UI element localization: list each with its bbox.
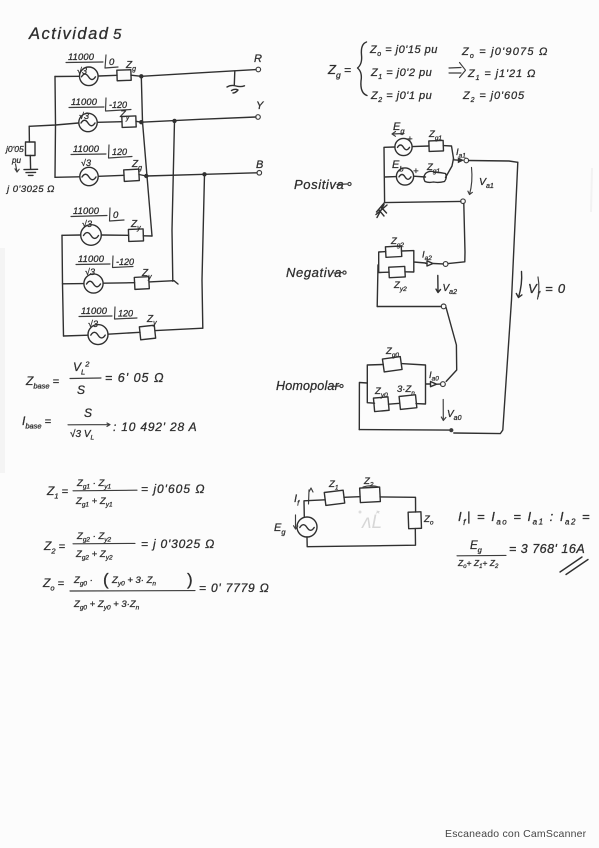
svg-text:120: 120 bbox=[118, 309, 133, 319]
node Y junction bbox=[139, 120, 143, 124]
source V4 bbox=[81, 225, 102, 246]
impedance Zy (phase R, bank2) bbox=[128, 219, 143, 241]
wire Zg1 to node R bbox=[131, 75, 141, 76]
formula Z0 bbox=[42, 570, 270, 612]
wire Z1f to Z2f bbox=[344, 496, 360, 499]
node homopolar bottom terminal bbox=[449, 428, 453, 432]
svg-text:11000: 11000 bbox=[71, 97, 98, 107]
svg-text:): ) bbox=[187, 570, 193, 589]
svg-text:pu: pu bbox=[11, 156, 21, 165]
svg-text:R: R bbox=[254, 53, 262, 65]
wire bus1 (left vertical) bbox=[54, 77, 57, 178]
arrow Va1 bbox=[468, 168, 494, 195]
wire V1 to Zg1 bbox=[99, 74, 117, 77]
impedance 3Zn bbox=[397, 384, 417, 409]
terminal Ia1 bbox=[464, 158, 469, 163]
wire Z0f to bottom bbox=[307, 529, 416, 547]
watermark faint pencil bbox=[359, 511, 383, 534]
terminal B bbox=[257, 171, 262, 176]
wire bus2 (left vertical) bbox=[62, 235, 64, 336]
wire bus2 to V6 bbox=[64, 334, 89, 337]
impedance Z1 (fault loop) bbox=[324, 479, 344, 505]
terminal Ia0 bbox=[441, 382, 446, 387]
wire Zy5 to bus Y bbox=[149, 281, 178, 284]
svg-text:= 6' 05 Ω: = 6' 05 Ω bbox=[105, 371, 164, 385]
wire Z2f to corner bbox=[380, 497, 416, 512]
terminal R bbox=[256, 67, 261, 72]
ground on line R bbox=[227, 71, 245, 93]
source Eg (fault loop) bbox=[297, 517, 317, 537]
source Eb1 (positive) bbox=[396, 168, 413, 185]
svg-text:11000: 11000 bbox=[73, 144, 100, 154]
label Eg (positive src A) bbox=[392, 121, 413, 145]
svg-text:= 3 768' 16A: = 3 768' 16A bbox=[509, 542, 585, 556]
formula Ibase bbox=[22, 406, 197, 442]
wire V6 to Zy6 bbox=[108, 332, 140, 334]
svg-text:= j 0'3025 Ω: = j 0'3025 Ω bbox=[141, 537, 215, 551]
node B junction bbox=[144, 174, 148, 178]
svg-text:Homopolar: Homopolar bbox=[276, 379, 340, 393]
formula If chain bbox=[458, 509, 591, 527]
wire Ea1 to Zg1 bbox=[412, 145, 429, 148]
wire bus1 to V3 bbox=[55, 176, 79, 179]
arrow Va0 bbox=[441, 400, 461, 423]
title Actividad 5 bbox=[28, 25, 122, 43]
wire link positive-bottom to negative-top bbox=[448, 204, 465, 264]
junction Y-bus tap bbox=[172, 119, 176, 123]
wire Zy to node Y bbox=[136, 120, 141, 123]
svg-text:0: 0 bbox=[113, 210, 119, 221]
terminal Y bbox=[256, 115, 261, 120]
wire bus B (vertical tie) bbox=[202, 174, 205, 328]
arrow Ia2 bbox=[422, 250, 433, 267]
arrow Ia1 bbox=[454, 147, 467, 163]
svg-text:ʌĹ̀: ʌĹ̀ bbox=[361, 511, 382, 533]
svg-text:√3: √3 bbox=[85, 267, 95, 277]
wire homopolar left outer bbox=[359, 383, 367, 430]
source V1 bbox=[80, 67, 99, 86]
wire Zn to ground bbox=[29, 156, 31, 170]
svg-text:5: 5 bbox=[113, 26, 122, 43]
wire homopolar parallel loop bbox=[367, 364, 430, 405]
arrow implies bbox=[449, 63, 466, 78]
source V2 bbox=[79, 113, 97, 131]
wire bus R (vertical tie) bbox=[141, 76, 152, 236]
impedance Zg1 (branch A) bbox=[428, 129, 443, 151]
label Positiva bbox=[294, 177, 351, 192]
node R junction bbox=[139, 74, 143, 78]
label j0'05 pu bbox=[5, 144, 24, 165]
ground neutral bbox=[24, 169, 38, 175]
svg-text:= 0' 7779 Ω: = 0' 7779 Ω bbox=[199, 581, 270, 595]
svg-text:j0'05: j0'05 bbox=[5, 144, 24, 154]
wire Zg1 to node Ia1 bbox=[443, 146, 453, 159]
svg-text:Actividad: Actividad bbox=[28, 25, 109, 43]
wire Zg3 to node B bbox=[139, 175, 146, 177]
impedance Zy0 bbox=[373, 386, 389, 412]
impedance Zy (phase Y, bank2) bbox=[134, 268, 152, 289]
wire Eb1 to Zg1B bbox=[414, 175, 426, 178]
source V3 label 11000/sqrt3 angle 120 bbox=[71, 144, 132, 168]
wire bus2 to V5 bbox=[63, 283, 84, 285]
wire Zg1B to node Ia1 bbox=[446, 159, 454, 178]
label Negativa bbox=[286, 265, 346, 280]
source V3 bbox=[80, 167, 98, 185]
svg-text:: 10 492' 28 A: : 10 492' 28 A bbox=[113, 420, 197, 434]
arrow Vf = 0 bbox=[516, 272, 566, 300]
impedance Zy2 bbox=[389, 266, 407, 293]
ground scribble positive bbox=[376, 203, 387, 218]
formula Z1 bbox=[46, 478, 205, 509]
wire source top to Z1f bbox=[304, 500, 325, 517]
wire positive left vertical bbox=[384, 147, 396, 203]
svg-text:Y: Y bbox=[256, 100, 264, 112]
wire bus2 to V4 bbox=[62, 234, 81, 236]
source V5 bbox=[84, 274, 103, 293]
scan artifacts bbox=[0, 168, 592, 473]
wire negative bottom bbox=[377, 306, 441, 308]
wire Ia0 arrow to terminal bbox=[437, 383, 441, 385]
source V1 label 11000/sqrt3 angle 0 bbox=[66, 52, 118, 76]
svg-text:0: 0 bbox=[109, 57, 115, 68]
terminal positive bottom bbox=[461, 199, 466, 204]
impedance Z0 (fault loop) bbox=[408, 512, 434, 529]
impedance Zg1 (branch B, scribbled) bbox=[424, 162, 446, 182]
arrow Va2 bbox=[436, 276, 457, 297]
label Eb (positive src B) bbox=[392, 159, 419, 177]
svg-text:11000: 11000 bbox=[81, 306, 108, 316]
wire line R bbox=[141, 70, 256, 77]
svg-text:B: B bbox=[256, 159, 263, 171]
impedance Zn (neutral grounding) bbox=[26, 142, 36, 156]
wire link negative-bottom to homopolar-top bbox=[446, 307, 457, 381]
impedance Z2 (fault loop) bbox=[360, 476, 381, 503]
formula Z2 bbox=[43, 531, 215, 562]
formula If value bbox=[457, 540, 588, 575]
wire right rail (tall) bbox=[454, 162, 518, 433]
wire Zy4 to bus R bbox=[143, 235, 152, 237]
svg-text:j 0'3025 Ω: j 0'3025 Ω bbox=[5, 184, 55, 195]
terminal negative bottom bbox=[441, 304, 446, 309]
svg-text:= j0'605 Ω: = j0'605 Ω bbox=[141, 482, 205, 496]
source V5 label 11000/sqrt3 angle -120 bbox=[76, 254, 134, 277]
wire neutral tap to V2 bbox=[29, 123, 78, 126]
label Eg fault bbox=[274, 515, 298, 537]
arrow neutral bbox=[15, 164, 19, 172]
svg-text:11000: 11000 bbox=[68, 52, 95, 62]
impedance Zg2 bbox=[385, 236, 404, 257]
source V2 label 11000/sqrt3 angle -120 bbox=[69, 97, 131, 121]
source Ea1 (positive) bbox=[395, 138, 412, 155]
wire V4 to Zy4 bbox=[101, 234, 128, 236]
wire bus Y (vertical tie) bbox=[172, 121, 175, 281]
source V4 label 11000/sqrt3 angle 0 bbox=[71, 206, 124, 229]
svg-text:√3: √3 bbox=[81, 158, 91, 168]
junction B-bus tap bbox=[202, 172, 206, 176]
svg-text:11000: 11000 bbox=[73, 206, 100, 216]
label If bbox=[294, 488, 313, 508]
formula Zbase bbox=[25, 360, 164, 398]
svg-text:S: S bbox=[84, 406, 92, 420]
svg-text:S: S bbox=[77, 383, 85, 397]
wire line B bbox=[146, 173, 257, 176]
wire V3 to Zg3 bbox=[99, 175, 124, 176]
source V6 label 11000/sqrt3 angle 120 bbox=[79, 306, 137, 329]
wire line Y bbox=[141, 117, 256, 122]
impedance Zg0 bbox=[382, 346, 402, 372]
wire negative parallel loop bbox=[379, 251, 426, 273]
svg-text:Zo = j0'9075 Ω: Zo = j0'9075 Ω bbox=[461, 46, 549, 60]
impedance Zg (phase R, bank1) bbox=[117, 60, 136, 81]
wire V5 to Zy5 bbox=[103, 282, 135, 285]
svg-text:11000: 11000 bbox=[78, 254, 105, 264]
svg-text:Negativa: Negativa bbox=[286, 265, 342, 280]
impedance Zg (phase B, bank1) bbox=[124, 159, 142, 181]
wire negative left down bbox=[376, 265, 379, 307]
wire homopolar bottom bbox=[359, 429, 449, 432]
source V6 bbox=[88, 325, 108, 345]
svg-text:√3: √3 bbox=[79, 111, 89, 121]
label Homopolar bbox=[276, 379, 343, 393]
wire Zy6 to bus B bbox=[156, 328, 203, 330]
wire positive bottom bbox=[385, 201, 461, 202]
impedance Zy (phase Y, bank1) bbox=[119, 109, 136, 127]
wire top link to right rail bbox=[469, 161, 518, 163]
wire Ia2 arrow to terminal bbox=[434, 263, 444, 265]
svg-text:120: 120 bbox=[112, 147, 127, 157]
svg-text:Escaneado con CamScanner: Escaneado con CamScanner bbox=[445, 828, 587, 840]
svg-text:(: ( bbox=[103, 570, 109, 589]
svg-text:√3: √3 bbox=[88, 319, 98, 329]
svg-text:Zy0 + 3· Zn: Zy0 + 3· Zn bbox=[111, 575, 156, 588]
svg-text:-120: -120 bbox=[116, 257, 134, 267]
impedance Zy (phase B, bank2) bbox=[139, 314, 157, 340]
arrow Ia0 bbox=[429, 370, 439, 387]
wire neutral branch bbox=[28, 126, 30, 142]
terminal Ia2 bbox=[443, 262, 448, 267]
wire V2 to Zy2 bbox=[98, 121, 122, 124]
wire bus1 to V1 bbox=[55, 75, 79, 77]
brace bbox=[358, 42, 368, 96]
